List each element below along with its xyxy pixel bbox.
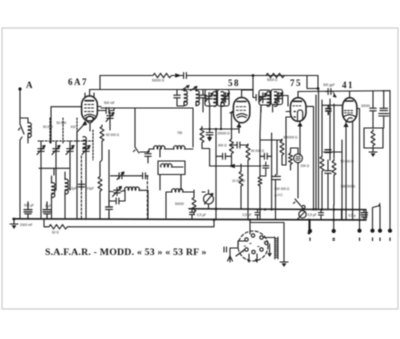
wire long vertical 342 [341,140,343,219]
wire volume leads [291,148,299,198]
variable capacitor CV4 [82,145,90,155]
coil osc b [174,146,185,149]
wire CV1 down [40,155,42,218]
wire 75 right stub [306,106,314,209]
coil ant osc [172,189,183,192]
capacitor osc mid [145,151,151,159]
capacitor 58 right [235,142,243,148]
wire CV4 down [85,155,87,218]
wire pot [202,190,209,209]
svg-text:-10µF: -10µF [86,186,94,190]
wire osc vertical [108,150,110,219]
wire dashed shield [146,177,148,219]
wire socket right to bus [308,219,310,233]
svg-text:500 mF: 500 mF [104,101,115,105]
wire Rk down [202,144,210,166]
wire 58 cathode down [238,127,240,133]
socket pin 6 [252,250,255,253]
svg-text:50.000: 50.000 [57,121,67,125]
capacitor out b [379,91,389,128]
tube 41 grid dashes [344,111,352,113]
wire CV3 down [69,155,71,190]
tube 6A7 envelope [82,96,98,121]
socket pin 3 [260,236,263,239]
IFT1 can box d [218,90,230,107]
terminal dot t4 [370,229,374,233]
ground socket left [228,256,233,262]
junction dot diode [259,208,261,210]
coil osc tracking [125,187,140,190]
tube 41 envelope [343,98,357,122]
terminal dot t1 [308,229,312,233]
wire IFT1 down leads [210,103,221,129]
wire B+ corner at 318 [307,76,318,89]
wire diode load down [259,187,261,220]
svg-text:S.A.F.A.R. - MODD. « 53 »: S.A.F.A.R. - MODD. « 53 » « 53 RF » [45,247,207,258]
capacitor padding [78,182,84,190]
IFT1 trimmer d [222,93,230,103]
wire long vertical 316 [315,95,317,209]
tube 41 cathode arrow [344,122,348,127]
resistor volume element [289,152,293,165]
svg-text:41: 41 [342,80,354,90]
wire 75 cathode down [299,126,301,155]
svg-text:2 µF: 2 µF [45,204,51,208]
tube 6A7 anode bar [85,100,94,102]
IFT1 can box c [205,90,217,107]
tube 75 anode lead [297,92,299,98]
IFT1 trimmer c [205,93,213,103]
svg-text:750: 750 [177,131,183,135]
junction dot bus e [213,219,215,221]
junction dot bus c [312,208,314,210]
electrolytic cathode filter [106,195,113,219]
label t1 [309,238,311,241]
wire long vertical 330 [329,99,331,160]
wire coil row [140,149,193,157]
wire bus right end [342,209,367,220]
resistor avc top [280,139,284,157]
wire L1 [20,118,28,143]
wire 75 left stubs [286,112,290,126]
resistor 400 ohm cathode [200,127,204,145]
wire coil to corner [139,189,147,191]
wire t4 pickup loop [373,204,381,230]
capacitor 0.5uF bus d [361,210,368,220]
wire det link [260,155,272,157]
tube 58 anode bar [237,101,246,103]
wire resistor to bus [99,168,101,219]
wire ift2 lead long [260,105,261,176]
svg-text:50 000 Ω: 50 000 Ω [251,149,265,153]
socket pin 7 [260,248,263,251]
capacitor 500mF trimmer [106,112,114,122]
coil L3 [65,179,68,194]
tube 6A7 anode lead [89,90,91,97]
tube 75 grid dashes [293,105,301,107]
tube 58 cathode arcs [237,114,248,118]
tube 58 anode lead [242,76,253,98]
tube 41 leads bottom [346,122,353,220]
wire det top links [260,133,282,140]
potentiometer volume circle [294,154,303,163]
capacitor 0.5uF bus c [319,210,324,220]
wire t6 long right line [389,91,391,229]
arrow avc row [230,165,235,168]
oscillator grid line corner [134,108,136,147]
wire t3 [359,140,361,229]
resistor 300000 right b [332,159,336,177]
junction dot bus b [264,208,266,210]
switch detector [293,199,301,206]
tube 58 envelope [233,98,249,123]
svg-text:300 000 Ω: 300 000 Ω [341,185,356,189]
svg-text:50000: 50000 [175,202,184,206]
wire t2 [333,205,335,230]
oscillator box [158,161,185,175]
svg-text:0,5 µF: 0,5 µF [308,213,317,217]
label t3 [359,238,361,241]
terminal dot t5 [378,229,382,233]
junction dot B+ [252,74,255,77]
capacitor det shunt [260,162,269,176]
wire 41 right stub [357,109,360,141]
wire long vertical 322 [321,100,323,154]
svg-text:2000 mF: 2000 mF [20,223,33,227]
wire grid line y108 [101,108,193,147]
junction dot bus f [249,219,251,221]
tube 75 grid dots [294,112,295,118]
IFT2 coil b [274,92,277,107]
wire det vertical b [271,140,273,209]
dial lamp filament [298,212,306,219]
wire trimmer down [109,122,111,130]
trimmer arrow padder [117,172,124,180]
dial lamp circle [299,211,306,218]
svg-text:0,5 µF: 0,5 µF [243,213,252,217]
wire cap mid right [327,160,329,210]
junction dot 318 [317,87,320,90]
coil L2 [52,183,55,198]
mark after title [224,247,227,252]
capacitor padder trimmer [117,173,125,179]
arrow cathode cap [208,138,212,141]
wire top bus b+ [100,75,318,77]
junction dot 316 [315,208,317,210]
IFT1 coil a [184,91,187,106]
socket pin 5 [245,248,248,251]
wire t1 [309,220,311,229]
tuning gang dashed link [38,140,93,142]
junction dot bus d [333,208,335,210]
wire antenna to bus [19,140,21,218]
wire socket inner vertical [268,244,271,256]
svg-text:410: 410 [71,125,77,129]
IFT1 trimmer arrow b [191,87,198,91]
socket dashed circle [238,231,268,261]
wire socket pin right lead [263,237,275,239]
wire 41 grid line [323,104,343,106]
IFT1 leads [177,90,203,113]
IFT2 can box b [271,90,283,105]
junction dot socket [308,232,311,235]
resistor 50000 plate [151,73,173,77]
socket coil hatch [275,237,278,259]
junction dot bus g [333,219,335,221]
wire osc series cap [109,190,125,201]
wire long vertical 216 [215,129,217,220]
coil in osc box [161,164,172,167]
wire resistor osc [190,190,194,196]
tube 41 anode bar [345,100,353,102]
wire padder row [111,176,148,177]
capacitor screen bypass [220,153,228,159]
wire grid resistor [100,143,102,169]
tube 6A7 cathode circle [86,116,93,123]
capacitor on B+ line [181,73,189,79]
IFT1 capacitor a [174,93,180,101]
wire top line riser [99,76,101,90]
coil osc a [154,146,165,149]
variable capacitor CV3 [66,145,74,155]
tube 58 grid dashes [236,107,245,111]
svg-text:400 Ω: 400 Ω [218,144,227,148]
main bus line B minus [189,208,366,211]
svg-text:0,5 µF: 0,5 µF [197,213,206,217]
capacitor 300mF top [326,89,334,95]
tube 6A7 cathode arcs [85,114,96,118]
socket bottom leads [248,254,257,262]
svg-text:3: 3 [264,241,266,245]
IFT2 trimmer b [275,92,283,102]
capacitor right mid [325,150,331,153]
svg-text:300 µµF: 300 µµF [323,83,335,87]
wire cathode down [77,123,90,218]
wire L2 L3 pad down [52,172,66,219]
coil L1 antenna [28,123,31,138]
tube 6A7 top pins [85,93,94,97]
tube 75 anode bar [294,100,302,102]
svg-text:5000 Ω: 5000 Ω [267,78,278,82]
wire CV2 down [55,155,57,190]
label t2 [333,239,334,241]
IFT1 coil c [214,92,217,107]
svg-text:50000 Ω: 50000 Ω [152,79,165,83]
terminal dot t6 [388,229,392,233]
svg-text:50 000 Ω: 50 000 Ω [106,133,120,137]
socket pin 2 [251,234,254,237]
wire plate top line [90,89,253,91]
svg-text:62 Ω: 62 Ω [52,231,59,235]
switch dot [302,205,305,208]
coil tuning extra [83,137,86,152]
resistor screen 58 [230,138,234,156]
ground below box [369,148,377,157]
main bus line chassis [13,219,366,220]
capacitor screen small [104,108,112,114]
svg-text:500 µF: 500 µF [24,204,34,208]
IFT2 coil a [267,92,270,107]
tube 41 anode lead [349,92,351,98]
capacitor det series [262,153,270,159]
svg-text:20000 Ω: 20000 Ω [218,132,231,136]
IFT1 coil d [221,92,224,107]
variable capacitor osc [114,188,120,196]
socket top lead [250,220,284,258]
wire cap osc [147,158,149,163]
trimmer arrow osc [113,187,122,197]
resistor 50000 right a [320,155,324,173]
wire det vertical c [276,140,278,175]
wire gang top [41,141,86,145]
potentiometer arrow [205,194,214,205]
wire screen cap [216,155,232,157]
capacitor mid right [325,168,331,176]
resistor 10000 [239,170,243,188]
socket pin ticks [244,244,259,247]
tube 6A7 cathode arrow [83,122,86,126]
svg-text:30000: 30000 [361,104,370,108]
terminal dot ground [13,218,16,221]
capacitor 0.5uF bus b [255,209,260,219]
wire osc box leads [160,167,183,190]
wire coil down [148,190,190,218]
svg-text:0,5 µ: 0,5 µ [349,214,356,218]
box output resistor [364,128,383,148]
wire long vertical 334 [333,104,335,158]
arrow cap down [333,93,336,97]
potentiometer volume hatch [296,157,301,161]
wire avc resistor down [282,125,286,165]
IFT1 coil b [196,91,199,106]
variable capacitor CV1 [37,145,45,155]
wire avc row [210,165,261,167]
wire 58 plate right [253,90,262,98]
wire tuning link [39,168,69,175]
svg-text:58: 58 [228,78,240,88]
electrolytic C 2uF [43,202,51,219]
wire resistor 58 down [247,144,249,220]
IFT1 trimmer arrow a [182,86,189,91]
capacitor mica 41 grid [326,105,331,114]
tube 58 cathode arrow [237,123,241,127]
wire right mid link [324,151,342,153]
gang dashes up [50,118,93,160]
resistor AVC 2 [98,175,102,193]
wire cap right [232,144,249,146]
switch antenna [19,124,25,140]
ground chassis [10,220,18,229]
capacitor 0.5uF bus a [190,209,195,219]
junction dot bus a [215,208,217,210]
tube 41 cathode arcs [344,115,355,122]
tube 75 diode loop [298,110,303,120]
wire cap to line [112,108,115,111]
electrolytic C 500uF [24,202,32,219]
svg-text:75: 75 [290,78,302,88]
socket pin 4 [265,241,268,244]
arrow on B+ line [176,74,181,77]
terminal dot t3 [357,229,361,233]
resistor field coil [371,130,375,148]
gang dashed vertical [80,156,82,219]
wire 75 plate line right [298,90,390,93]
svg-text:A: A [26,80,34,90]
wire cap a down [372,114,374,129]
wire 334 down [333,177,335,206]
variable capacitor CV2 [52,145,60,155]
capacitor osc series [114,198,122,204]
wire 58 grid vertical [232,111,234,138]
potentiometer circle [204,194,214,204]
tube 75 envelope [290,98,306,122]
wire IFT2 down leads [261,96,288,113]
wire 322 down [321,173,323,210]
wire osc trimmer [109,190,125,191]
wire grid stub left [51,107,82,143]
wire 58 cathode row [202,127,239,129]
capacitor padder b [140,173,148,179]
junction dots cathode row [209,128,211,130]
terminal dot t2 [332,229,336,233]
tube 6A7 grid dashes [85,105,94,112]
capacitor out a [370,106,376,114]
IFT1 capacitor b [200,93,206,101]
socket left leads [230,241,247,256]
heater wire [44,219,214,227]
junction dot det b [270,208,272,210]
resistor 62 ohm heater [47,225,69,229]
svg-text:10 000 Ω: 10 000 Ω [232,179,246,183]
resistor 50000 ohm grid [100,125,104,143]
IFT2 can box a [259,90,271,105]
wire screen stub right [97,107,104,111]
capacitor cathode bypass [206,129,213,137]
svg-text:A.V.C.: A.V.C. [275,193,284,197]
resistor 50000 58 [246,144,250,162]
resistor osc bottom [192,196,196,214]
svg-text:294 Ω: 294 Ω [301,164,310,168]
label t6 [389,238,391,241]
capacitor 58 plate coupling [254,95,262,101]
svg-text:500 000 Ω: 500 000 Ω [275,187,290,191]
ground socket right [280,258,288,267]
svg-text:6A7: 6A7 [68,77,88,87]
switch osc [133,147,139,153]
wire long vertical 318b [318,89,320,210]
capacitor coupling audio [272,175,281,220]
junction dot 322 [321,208,323,210]
svg-text:2,2µF: 2,2µF [69,186,77,190]
resistor diode load [258,176,262,187]
socket pin 1 [245,238,248,241]
wire screen resistor down [231,155,233,166]
IFT2 trimmer a [259,93,267,103]
label t45 [373,238,381,241]
wire antenna down [19,91,21,125]
wire r10000 [240,164,242,209]
resistor 5000 ohm B+ [264,73,286,77]
wire 58 grid left [230,111,233,113]
wire right verticals [372,91,374,106]
antenna terminal A [18,87,21,90]
tube 75 cathode arrow [298,121,302,126]
